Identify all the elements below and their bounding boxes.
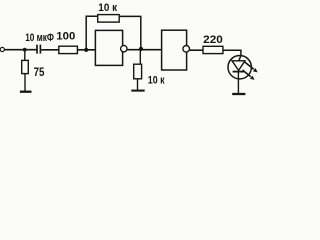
wire R10k to ground xyxy=(137,79,139,90)
wire R75 to ground xyxy=(24,74,26,91)
wire feedback right leg xyxy=(119,16,141,49)
LED triangle anode xyxy=(232,61,245,71)
wire U2 output to R220 xyxy=(190,49,203,51)
logic gate U1 xyxy=(95,30,122,65)
input terminal xyxy=(0,47,4,51)
resistor R10k pulldown xyxy=(134,64,142,79)
capacitor C1 plate 2 xyxy=(39,45,41,54)
svg-text:10 к: 10 к xyxy=(148,74,165,86)
LED light arrow 1 xyxy=(245,62,254,69)
resistor Rfb 10k xyxy=(98,15,120,23)
wire U1 output to U2 input xyxy=(127,49,162,51)
resistor R100 xyxy=(59,46,78,53)
svg-text:100: 100 xyxy=(56,31,75,43)
svg-text:10 мкФ: 10 мкФ xyxy=(25,32,54,44)
resistor R75 xyxy=(22,60,29,73)
ground bar under LED xyxy=(232,93,245,95)
svg-text:10 к: 10 к xyxy=(98,2,117,14)
wire R100 to gate1 input xyxy=(77,49,95,51)
capacitor C1 plate 1 xyxy=(36,45,38,54)
wire input bus xyxy=(4,49,36,51)
node junction output/feedback/R10k xyxy=(139,47,143,51)
wire R220 to LED anode xyxy=(223,50,241,61)
LED VD1 circle xyxy=(228,55,251,78)
svg-text:220: 220 xyxy=(203,34,223,46)
wire down to R75 xyxy=(24,50,26,61)
LED light arrow 2 xyxy=(243,70,251,77)
wire feedback left leg xyxy=(86,16,98,50)
node junction input/R75 xyxy=(23,48,27,52)
LED cathode bar xyxy=(233,71,245,73)
wire C1 to R100 xyxy=(41,49,59,51)
inversion bubble U1 xyxy=(121,46,127,52)
node junction feedback/input xyxy=(84,48,88,52)
ground bar under R10k xyxy=(131,90,144,92)
logic gate U2 xyxy=(162,30,187,70)
ground bar under R75 xyxy=(20,91,32,93)
inversion bubble U2 xyxy=(183,46,190,53)
svg-text:75: 75 xyxy=(34,65,45,79)
wire LED to ground xyxy=(237,73,239,94)
wire down to R10k xyxy=(139,50,141,64)
resistor R220 xyxy=(203,46,223,53)
